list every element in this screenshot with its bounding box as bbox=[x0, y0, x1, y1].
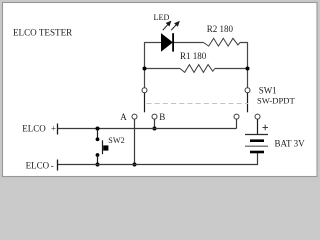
resistor R1 bbox=[180, 65, 215, 73]
wire: LED cathode to R2 bbox=[174, 42, 204, 44]
LED bbox=[161, 22, 179, 52]
wire: R1 row left bbox=[145, 68, 181, 70]
switch SW1 (DPDT) bbox=[132, 88, 260, 119]
junction: R1 right bbox=[246, 67, 250, 71]
svg-text:ELCO: ELCO bbox=[26, 161, 50, 171]
wire: throw B down to ELCO+ row bbox=[154, 119, 156, 128]
svg-text:SW2: SW2 bbox=[108, 136, 124, 145]
pushbutton SW2 bbox=[96, 129, 109, 165]
svg-text:-: - bbox=[51, 161, 54, 171]
svg-text:+: + bbox=[51, 124, 56, 134]
wire: ELCO+ row bbox=[58, 128, 237, 130]
junction: A stem on ELCO- wire bbox=[133, 163, 137, 167]
junction: SW2 tap on ELCO+ bbox=[96, 127, 100, 131]
resistor R2 bbox=[204, 38, 241, 46]
battery plus sign bbox=[263, 125, 269, 131]
junction: B stem on ELCO+ wire bbox=[153, 127, 157, 131]
svg-text:SW1: SW1 bbox=[259, 86, 277, 96]
wire: right throw C down to ELCO+ row end bbox=[236, 119, 238, 128]
svg-text:R1 180: R1 180 bbox=[180, 51, 207, 61]
wire: ELCO- row to battery bottom bbox=[58, 153, 258, 165]
wire: R2 to right vertical down to SW1 right pole bbox=[240, 43, 248, 88]
svg-text:B: B bbox=[159, 112, 165, 122]
svg-text:LED: LED bbox=[154, 13, 170, 22]
svg-text:R2 180: R2 180 bbox=[207, 24, 234, 34]
wire: throw D down to battery + bbox=[257, 119, 259, 134]
wire: throw A down to ELCO- row bbox=[134, 119, 136, 164]
junction: SW2 bottom on ELCO- bbox=[96, 163, 100, 167]
svg-text:BAT 3V: BAT 3V bbox=[275, 138, 306, 148]
svg-text:SW-DPDT: SW-DPDT bbox=[257, 96, 295, 106]
svg-text:ELCO: ELCO bbox=[22, 124, 46, 134]
wire: R1 row right bbox=[215, 68, 248, 70]
svg-text:ELCO TESTER: ELCO TESTER bbox=[13, 28, 73, 38]
wire: left vertical to LED anode bbox=[145, 43, 162, 88]
junction: R1 left bbox=[143, 67, 147, 71]
battery BAT 3V bbox=[245, 135, 268, 153]
svg-text:A: A bbox=[120, 112, 127, 122]
